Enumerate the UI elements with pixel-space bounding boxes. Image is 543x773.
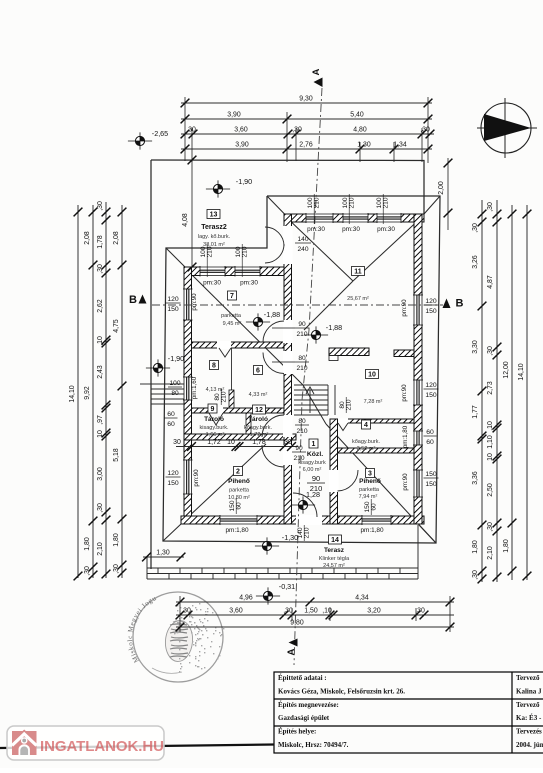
room 9 Tároló bbox=[208, 404, 217, 413]
svg-text:1,80: 1,80 bbox=[84, 537, 91, 551]
level -1,90 terasz2 bbox=[206, 180, 230, 197]
svg-text:120: 120 bbox=[167, 296, 179, 303]
window 120 east 1 bbox=[413, 295, 423, 325]
svg-text:pm:30: pm:30 bbox=[377, 226, 395, 233]
marker B left bbox=[129, 294, 146, 306]
svg-text:Gazdasági épület: Gazdasági épület bbox=[278, 714, 330, 722]
svg-text:5,40: 5,40 bbox=[350, 112, 364, 119]
svg-text:3,60: 3,60 bbox=[229, 608, 243, 615]
room 11 bbox=[352, 267, 365, 276]
top dim extension lines bbox=[185, 97, 428, 163]
door 80 room6 bbox=[283, 351, 293, 374]
svg-text:,30: ,30 bbox=[420, 127, 430, 134]
svg-text:pm:30: pm:30 bbox=[240, 280, 258, 287]
svg-text:120: 120 bbox=[167, 470, 179, 477]
door 140 south Közl bbox=[296, 515, 322, 525]
svg-text:60: 60 bbox=[167, 421, 175, 428]
level -1,88 room7 bbox=[246, 313, 270, 330]
svg-text:2,73: 2,73 bbox=[487, 381, 494, 395]
dim 2,00 right bbox=[447, 158, 449, 230]
svg-text:pm:30: pm:30 bbox=[342, 226, 360, 233]
svg-text:8: 8 bbox=[212, 363, 216, 370]
room 1 Közl bbox=[309, 439, 318, 448]
svg-text:1: 1 bbox=[312, 441, 316, 448]
svg-text:4,96: 4,96 bbox=[239, 595, 253, 602]
svg-text:30: 30 bbox=[284, 439, 292, 446]
svg-text:Pihenő: Pihenő bbox=[228, 478, 250, 485]
svg-text:Építés megnevezése:: Építés megnevezése: bbox=[278, 701, 339, 709]
svg-text:Tervező: Tervező bbox=[516, 701, 540, 709]
svg-text:INGATLANOK.HU: INGATLANOK.HU bbox=[40, 738, 164, 755]
svg-text:80: 80 bbox=[298, 355, 306, 362]
svg-text:210: 210 bbox=[346, 399, 353, 410]
door 90 room7 bbox=[283, 320, 293, 343]
dim row 9,80 bbox=[176, 626, 454, 628]
room 2 Pihenő bbox=[234, 467, 243, 476]
svg-text:1,80: 1,80 bbox=[472, 540, 479, 554]
door 100 west side entry bbox=[183, 377, 193, 400]
svg-text:1,72: 1,72 bbox=[207, 439, 221, 446]
svg-text:10: 10 bbox=[368, 372, 376, 379]
room 7 bbox=[228, 291, 237, 300]
svg-text:60: 60 bbox=[426, 429, 434, 436]
svg-text:10,80 m²: 10,80 m² bbox=[228, 495, 250, 501]
svg-text:-1,90: -1,90 bbox=[236, 177, 252, 186]
svg-text:1,30: 1,30 bbox=[357, 142, 371, 149]
svg-text:25,67 m²: 25,67 m² bbox=[347, 296, 369, 302]
svg-text:120: 120 bbox=[425, 298, 437, 305]
svg-text:,30: ,30 bbox=[97, 264, 104, 274]
svg-text:3,00: 3,00 bbox=[97, 467, 104, 481]
svg-text:kőagy.burk.: kőagy.burk. bbox=[352, 439, 380, 445]
dim row 3,90 5,40 bbox=[181, 118, 432, 120]
svg-text:pm:1,80: pm:1,80 bbox=[360, 527, 384, 534]
svg-text:1,10: 1,10 bbox=[487, 435, 494, 449]
wall interior y448 Pihenő3 north bbox=[338, 448, 415, 453]
svg-text:150: 150 bbox=[425, 481, 437, 488]
svg-text:,30: ,30 bbox=[97, 503, 104, 513]
steps exterior west bbox=[140, 384, 184, 404]
svg-text:12,00: 12,00 bbox=[503, 361, 510, 378]
roof valley diagonals bbox=[185, 215, 435, 542]
wall east exterior bbox=[414, 214, 422, 524]
svg-text:,30: ,30 bbox=[472, 223, 479, 233]
svg-text:1,34: 1,34 bbox=[393, 142, 407, 149]
wall interior y342 room7/8 bbox=[192, 342, 292, 348]
svg-text:pm:90: pm:90 bbox=[193, 469, 200, 487]
level 1,28 bbox=[291, 496, 315, 513]
svg-text:pm:30: pm:30 bbox=[203, 280, 221, 287]
svg-text:,10: ,10 bbox=[487, 421, 494, 431]
svg-text:30: 30 bbox=[173, 439, 181, 446]
svg-text:Ka: É3 -: Ka: É3 - bbox=[516, 714, 542, 722]
right chain 12,00 bbox=[511, 205, 513, 580]
svg-text:4,08: 4,08 bbox=[182, 213, 189, 227]
bottom ext lines bbox=[180, 596, 450, 632]
svg-text:2,10: 2,10 bbox=[97, 542, 104, 556]
room 14 Terasz bbox=[329, 535, 342, 544]
wall divider Tároló/Tároló bbox=[246, 413, 251, 434]
marker B right bbox=[443, 298, 464, 310]
svg-text:Épittető adatai :: Épittető adatai : bbox=[278, 674, 327, 682]
svg-text:,30: ,30 bbox=[472, 570, 479, 580]
svg-text:Miskolc, Hrsz: 70494/7.: Miskolc, Hrsz: 70494/7. bbox=[278, 741, 349, 749]
window 120 west 2 bbox=[183, 460, 193, 494]
svg-text:pm:90: pm:90 bbox=[191, 293, 198, 311]
wall interior y408 Tároló top bbox=[192, 408, 292, 413]
window 100 right north 3 bbox=[377, 213, 401, 223]
svg-text:150: 150 bbox=[425, 308, 437, 315]
svg-text:pm:90: pm:90 bbox=[402, 473, 409, 491]
svg-text:,30: ,30 bbox=[181, 608, 191, 615]
svg-text:100: 100 bbox=[169, 380, 180, 387]
svg-text:3,90: 3,90 bbox=[235, 142, 249, 149]
svg-text:3: 3 bbox=[368, 471, 372, 478]
right chain 2 bbox=[496, 200, 498, 582]
svg-text:-1,88: -1,88 bbox=[264, 310, 280, 319]
svg-text:12: 12 bbox=[255, 407, 263, 414]
room 4 kőagy bbox=[362, 420, 371, 429]
svg-text:lagy. kő.burk.: lagy. kő.burk. bbox=[198, 234, 231, 240]
svg-text:,30: ,30 bbox=[283, 608, 293, 615]
dim 4,08 leader bbox=[191, 160, 193, 267]
svg-text:80: 80 bbox=[171, 390, 179, 397]
stairs interior bbox=[294, 385, 335, 415]
svg-text:10: 10 bbox=[487, 453, 494, 461]
svg-text:9,80: 9,80 bbox=[290, 620, 304, 627]
svg-text:210: 210 bbox=[383, 197, 390, 208]
svg-text:150: 150 bbox=[167, 306, 179, 313]
watermark ingatlanok.hu bbox=[7, 726, 164, 760]
wall south full bbox=[181, 516, 424, 524]
terrace brick edge bbox=[147, 525, 418, 579]
svg-text:7: 7 bbox=[230, 293, 234, 300]
svg-text:240: 240 bbox=[297, 246, 308, 253]
wall spine x284 bbox=[284, 214, 292, 524]
svg-text:210: 210 bbox=[242, 246, 249, 257]
svg-text:14,10: 14,10 bbox=[69, 385, 76, 402]
wall interior x330 Közl east bbox=[330, 419, 338, 524]
svg-text:,30: ,30 bbox=[415, 608, 425, 615]
window 100 right north 1 bbox=[306, 213, 333, 223]
window 150 east 4 bbox=[413, 470, 423, 497]
window 100 right north 2 bbox=[343, 213, 368, 223]
svg-text:9,92: 9,92 bbox=[84, 386, 91, 400]
svg-text:7,94 m²: 7,94 m² bbox=[359, 494, 378, 500]
north arrow bbox=[477, 98, 537, 158]
svg-text:210: 210 bbox=[296, 365, 307, 372]
svg-text:14: 14 bbox=[331, 537, 339, 544]
dim row 4,96 4,34 bbox=[176, 601, 454, 603]
svg-text:kisagy.burk.: kisagy.burk. bbox=[200, 425, 229, 431]
svg-text:3,26: 3,26 bbox=[472, 255, 479, 269]
door arcs bbox=[209, 227, 358, 517]
eaves outline terrace bbox=[151, 160, 440, 569]
svg-text:kisagy.burk: kisagy.burk bbox=[298, 460, 326, 466]
svg-text:Pihenő: Pihenő bbox=[359, 478, 381, 485]
svg-text:4,75: 4,75 bbox=[113, 319, 120, 333]
svg-text:-1,88: -1,88 bbox=[326, 323, 342, 332]
svg-text:Tervezés: Tervezés bbox=[516, 728, 542, 736]
svg-text:150: 150 bbox=[425, 471, 437, 478]
svg-text:Klinker tégla: Klinker tégla bbox=[319, 556, 350, 562]
svg-text:6,00 m²: 6,00 m² bbox=[303, 467, 322, 473]
svg-text:B: B bbox=[456, 298, 464, 310]
svg-text:24,57 m²: 24,57 m² bbox=[323, 563, 345, 569]
svg-text:-2,65: -2,65 bbox=[152, 129, 168, 138]
dim row 9,30 bbox=[181, 102, 432, 104]
svg-text:3,60: 3,60 bbox=[234, 127, 248, 134]
window 150 south right bbox=[362, 515, 391, 525]
svg-text:,30: ,30 bbox=[487, 202, 494, 212]
svg-text:parketta: parketta bbox=[359, 487, 380, 493]
dim row 3,90 2,76 1,30 1,34 bbox=[181, 148, 432, 150]
svg-text:1,80: 1,80 bbox=[113, 533, 120, 547]
dim row 30 3,60 30 4,80 30 bbox=[181, 133, 434, 135]
dim row 1,72 10 1,78 interior bbox=[176, 446, 298, 448]
svg-text:pm:1,80: pm:1,80 bbox=[402, 425, 409, 448]
svg-text:2,76: 2,76 bbox=[299, 142, 313, 149]
svg-text:Közl.: Közl. bbox=[307, 451, 323, 458]
section axis B-B bbox=[152, 304, 443, 306]
left chain detail bbox=[105, 202, 107, 578]
svg-text:-1,90: -1,90 bbox=[168, 354, 184, 363]
window W 100 left-block north 1 bbox=[200, 266, 225, 277]
svg-text:,30: ,30 bbox=[487, 346, 494, 356]
svg-text:60: 60 bbox=[236, 502, 243, 510]
title block table bbox=[274, 672, 543, 753]
level -1,30 bbox=[255, 537, 279, 554]
svg-text:4,13 m²: 4,13 m² bbox=[206, 387, 225, 393]
svg-text:60: 60 bbox=[371, 503, 378, 511]
svg-text:1,66 m²: 1,66 m² bbox=[206, 432, 225, 438]
svg-text:,97: ,97 bbox=[97, 415, 104, 425]
svg-text:B: B bbox=[129, 294, 137, 306]
wall interior y419 room9 south bbox=[330, 419, 414, 423]
wall right-block north bbox=[284, 214, 424, 222]
svg-text:90: 90 bbox=[298, 321, 306, 328]
svg-text:pm:1,80: pm:1,80 bbox=[225, 527, 249, 534]
left chain 14,10 bbox=[77, 205, 79, 578]
level -1,88 room11 bbox=[304, 326, 328, 343]
left chain 2,08 4,75 5,18 1,80 bbox=[121, 205, 123, 578]
svg-text:4,80: 4,80 bbox=[353, 127, 367, 134]
svg-text:,30: ,30 bbox=[292, 127, 302, 134]
svg-text:Tároló: Tároló bbox=[248, 416, 268, 423]
window 60 east 3 bbox=[413, 431, 423, 445]
svg-text:1,78: 1,78 bbox=[252, 439, 266, 446]
dim 1,30 bottom left bbox=[143, 556, 184, 558]
svg-text:Terasz: Terasz bbox=[324, 547, 345, 554]
svg-text:4,33 m²: 4,33 m² bbox=[249, 392, 268, 398]
wall left-block north bbox=[184, 267, 291, 276]
svg-text:150: 150 bbox=[425, 392, 437, 399]
level -2,65 bbox=[128, 132, 152, 149]
svg-text:5,18: 5,18 bbox=[113, 448, 120, 462]
svg-text:1,30: 1,30 bbox=[156, 550, 170, 557]
svg-text:60: 60 bbox=[167, 411, 175, 418]
svg-text:Tervező: Tervező bbox=[516, 674, 540, 682]
svg-text:2004. jún: 2004. jún bbox=[516, 741, 543, 749]
svg-text:Kovács Géza, Miskolc, Felsőruz: Kovács Géza, Miskolc, Felsőruzsin krt. 2… bbox=[278, 688, 405, 696]
svg-text:2,43: 2,43 bbox=[97, 365, 104, 379]
right chain 14,10 bbox=[526, 205, 528, 580]
marker A bottom bbox=[286, 639, 298, 656]
svg-text:1,77: 1,77 bbox=[472, 405, 479, 419]
right chain 1 bbox=[481, 200, 483, 582]
svg-text:14,10: 14,10 bbox=[518, 363, 525, 380]
svg-text:4,34: 4,34 bbox=[355, 595, 369, 602]
room 10 bbox=[366, 370, 379, 379]
svg-text:1,78: 1,78 bbox=[97, 235, 104, 249]
svg-text:kőagy.burk.: kőagy.burk. bbox=[244, 425, 272, 431]
svg-text:Építés helye:: Építés helye: bbox=[278, 728, 316, 736]
svg-text:3,36: 3,36 bbox=[472, 471, 479, 485]
svg-text:10: 10 bbox=[227, 439, 235, 446]
svg-text:Terasz2: Terasz2 bbox=[201, 224, 227, 231]
level -0,31 bbox=[256, 587, 280, 604]
svg-text:38,01 m²: 38,01 m² bbox=[203, 242, 225, 248]
stamp seal bbox=[126, 592, 224, 682]
svg-text:,10: ,10 bbox=[97, 336, 104, 346]
svg-text:2,62: 2,62 bbox=[97, 299, 104, 313]
svg-text:10: 10 bbox=[97, 430, 104, 438]
svg-text:Tároló: Tároló bbox=[204, 416, 224, 423]
svg-text:4,87: 4,87 bbox=[487, 275, 494, 289]
svg-text:2: 2 bbox=[236, 469, 240, 476]
wall divider rooms 8/6 bbox=[229, 390, 234, 408]
room 6 bbox=[254, 366, 263, 375]
room 3 Pihenő bbox=[366, 469, 375, 478]
left chain 2,08 9,92 1,80 30 bbox=[92, 205, 94, 578]
svg-text:3,30: 3,30 bbox=[472, 340, 479, 354]
svg-text:150: 150 bbox=[167, 480, 179, 487]
svg-text:7,28 m²: 7,28 m² bbox=[364, 399, 383, 405]
window W 100 left-block north 2 bbox=[235, 266, 260, 277]
svg-text:parketta: parketta bbox=[229, 488, 250, 494]
svg-text:,30: ,30 bbox=[487, 522, 494, 532]
room 12 Tároló bbox=[253, 405, 266, 414]
svg-text:1,72 m²: 1,72 m² bbox=[250, 432, 269, 438]
svg-text:11: 11 bbox=[354, 269, 362, 276]
svg-text:80: 80 bbox=[298, 418, 306, 425]
svg-text:90: 90 bbox=[312, 474, 320, 483]
svg-text:pm:30: pm:30 bbox=[307, 226, 325, 233]
wall stub chimney right bbox=[394, 350, 414, 357]
svg-text:pm:90: pm:90 bbox=[401, 384, 408, 402]
svg-text:,30: ,30 bbox=[186, 127, 196, 134]
svg-text:210: 210 bbox=[296, 428, 307, 435]
wall west exterior bbox=[184, 267, 192, 524]
door 80 lower bbox=[283, 415, 293, 437]
page bottom scan line bbox=[0, 745, 274, 749]
level -1,90 west bbox=[146, 359, 170, 376]
svg-text:2,08: 2,08 bbox=[113, 231, 120, 245]
svg-text:210: 210 bbox=[296, 331, 307, 338]
svg-text:9,30: 9,30 bbox=[299, 96, 313, 103]
svg-text:Kalina J: Kalina J bbox=[516, 688, 542, 696]
marker A top bbox=[311, 68, 323, 87]
svg-text:,30: ,30 bbox=[113, 564, 120, 574]
svg-text:210: 210 bbox=[310, 484, 323, 493]
svg-text:pm:90: pm:90 bbox=[401, 299, 408, 317]
svg-text:140: 140 bbox=[297, 236, 308, 243]
room 13 Terasz2 bbox=[207, 210, 220, 219]
window 150 south left bbox=[220, 515, 257, 525]
svg-text:2,08: 2,08 bbox=[84, 231, 91, 245]
svg-text:A: A bbox=[311, 68, 322, 75]
svg-text:3,90: 3,90 bbox=[227, 112, 241, 119]
svg-text:pm:1,60: pm:1,60 bbox=[191, 376, 198, 399]
window 120 east 2 bbox=[413, 380, 423, 405]
svg-text:60: 60 bbox=[426, 439, 434, 446]
svg-text:-0,31: -0,31 bbox=[279, 582, 295, 591]
dim row 30 3,60 30 1,50 10 3,20 30 bbox=[176, 614, 454, 616]
roof hip lines bbox=[163, 196, 440, 543]
door V kőagy bbox=[338, 423, 348, 431]
wall stub chimney left bbox=[329, 348, 369, 356]
svg-text:210: 210 bbox=[349, 197, 356, 208]
svg-text:A: A bbox=[286, 648, 297, 655]
svg-text:120: 120 bbox=[425, 382, 437, 389]
wall interior y434 Tároló bottom bbox=[184, 434, 296, 440]
room 8 bbox=[210, 361, 219, 370]
svg-text:90: 90 bbox=[295, 445, 303, 452]
door Közl-Pihenő2 bbox=[283, 445, 293, 465]
door 140/240 to Terasz2 bbox=[283, 226, 293, 264]
svg-text:210: 210 bbox=[314, 197, 321, 208]
svg-text:1,50: 1,50 bbox=[304, 608, 318, 615]
svg-text:,30: ,30 bbox=[84, 566, 91, 576]
svg-text:9: 9 bbox=[211, 406, 215, 413]
svg-text:9,45 m²: 9,45 m² bbox=[223, 321, 242, 327]
svg-text:13: 13 bbox=[210, 212, 218, 219]
svg-text:,30: ,30 bbox=[97, 201, 104, 211]
section axis A-A bbox=[294, 88, 322, 665]
svg-text:2,10: 2,10 bbox=[487, 546, 494, 560]
svg-text:,10: ,10 bbox=[322, 608, 332, 615]
svg-text:210: 210 bbox=[304, 527, 311, 538]
svg-text:4: 4 bbox=[364, 422, 368, 429]
svg-text:3,52 m²: 3,52 m² bbox=[357, 446, 376, 452]
svg-text:3,20: 3,20 bbox=[367, 608, 381, 615]
svg-text:parketta: parketta bbox=[221, 313, 242, 319]
svg-text:2,50: 2,50 bbox=[487, 483, 494, 497]
svg-text:6: 6 bbox=[256, 368, 260, 375]
window 120 west 1 bbox=[183, 289, 193, 320]
svg-text:-1,30: -1,30 bbox=[282, 533, 298, 542]
svg-text:2,00: 2,00 bbox=[438, 181, 445, 195]
svg-text:1,80: 1,80 bbox=[503, 539, 510, 553]
